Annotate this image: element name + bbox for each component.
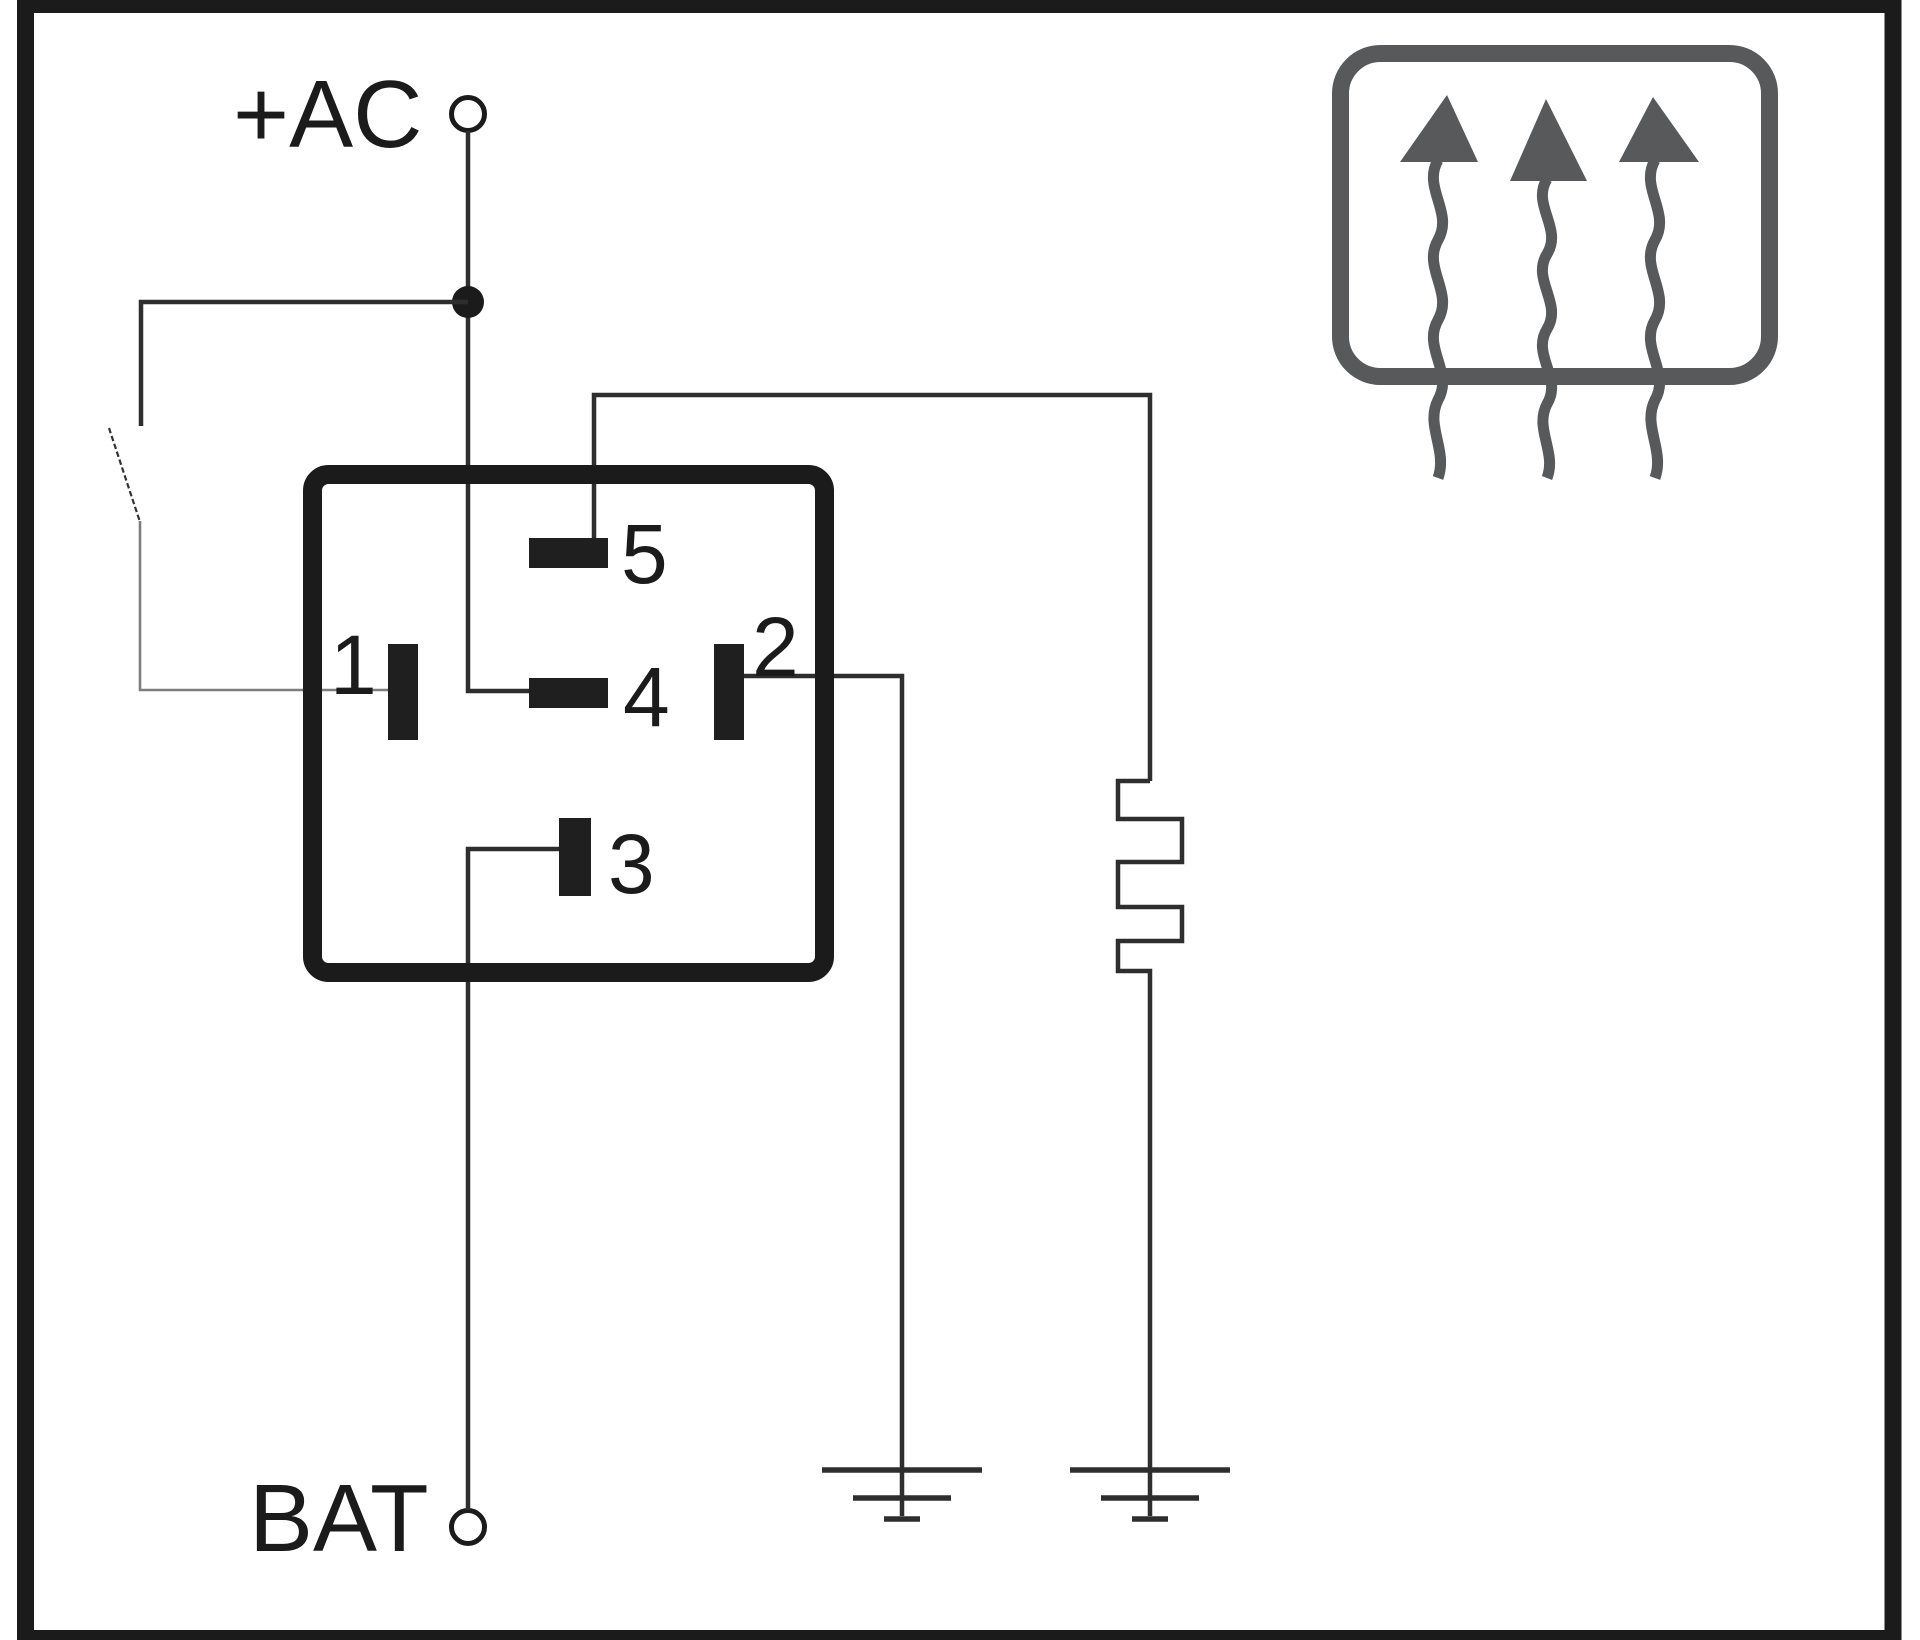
svg-text:2: 2 [752,600,799,694]
svg-text:+AC: +AC [233,61,422,168]
svg-text:3: 3 [608,817,655,911]
svg-text:5: 5 [621,507,668,601]
svg-text:1: 1 [330,618,377,712]
svg-text:BAT: BAT [249,1465,429,1572]
svg-text:4: 4 [623,650,670,744]
